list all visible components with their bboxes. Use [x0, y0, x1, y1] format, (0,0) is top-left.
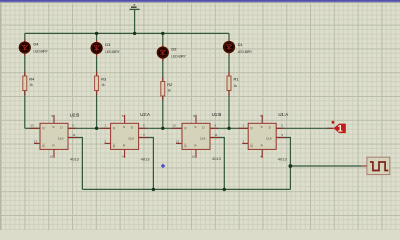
svg-text:S: S: [52, 125, 54, 129]
svg-text:10: 10: [50, 154, 54, 158]
junction clock generator tap: [289, 164, 293, 168]
wire: U1:A clock drop: [276, 138, 290, 190]
wire: Q row R4 to U2:B: [25, 127, 40, 129]
logic state probe "1": [332, 121, 346, 134]
LED D2: [158, 47, 168, 57]
svg-text:10: 10: [192, 154, 196, 158]
power terminal +V: [130, 4, 140, 9]
svg-text:CLK: CLK: [266, 136, 272, 140]
clock generator pin: [362, 165, 367, 167]
pins of resistor R4: [24, 72, 26, 96]
U1:A labels: [243, 112, 289, 162]
U1:B labels: [172, 112, 221, 161]
U2:B pins: [30, 127, 40, 129]
svg-text:12: 12: [176, 140, 180, 144]
pins of LED D1: [228, 39, 230, 56]
resistor R4: [23, 76, 27, 91]
wire: column D3/R3 vertical: [96, 33, 98, 128]
pins of resistor R1: [228, 72, 230, 96]
svg-text:4013: 4013: [212, 156, 222, 161]
svg-text:1k: 1k: [234, 84, 238, 88]
svg-text:U2:A: U2:A: [140, 112, 150, 117]
wire: Q row U2:A D to U1:B Q: [139, 127, 182, 129]
svg-text:D1: D1: [238, 42, 244, 47]
LED D4: [20, 42, 30, 52]
svg-text:S: S: [261, 125, 263, 129]
wire: column D1/R1 vertical: [228, 33, 230, 128]
U1:B pins: [172, 127, 182, 129]
LED D3: [91, 43, 101, 53]
wire: U2:A clock drop: [139, 138, 154, 190]
resistor R2: [161, 82, 165, 97]
window left edge shade: [0, 3, 1, 230]
junction D3 column / supply rail: [95, 32, 98, 35]
svg-text:S: S: [123, 125, 125, 129]
window top edge bar: [0, 0, 400, 3]
svg-text:LED-BIRY: LED-BIRY: [33, 49, 48, 53]
wire: bottom clock rail: [82, 188, 290, 190]
svg-text:S: S: [194, 125, 196, 129]
wire: Q row U1:A D to logic state probe: [276, 127, 333, 129]
pins of resistor R3: [96, 72, 98, 96]
junction D2 column / supply rail: [161, 32, 164, 35]
svg-text:CLK: CLK: [200, 136, 206, 140]
pins of LED D3: [96, 40, 98, 57]
pins of resistor R2: [162, 77, 164, 101]
svg-text:12: 12: [34, 140, 38, 144]
junction U1:B clock drop / clock rail: [223, 188, 226, 191]
resistor R1: [227, 76, 231, 91]
svg-text:4013: 4013: [70, 156, 80, 161]
svg-text:CLK: CLK: [58, 136, 64, 140]
svg-text:1k: 1k: [167, 88, 171, 92]
wire: power terminal drop: [134, 10, 136, 34]
pins of LED D4: [24, 40, 26, 57]
svg-text:4013: 4013: [141, 156, 151, 161]
junction R3 / Q row: [95, 127, 98, 130]
wire: top supply rail: [25, 32, 229, 34]
flip-flop U2:A body: [111, 123, 139, 149]
wire: U2:B clock drop: [68, 138, 82, 190]
wire: column D2/R2 vertical: [162, 33, 164, 128]
origin marker: [161, 164, 166, 169]
wire: column D4/R4 vertical: [24, 33, 26, 128]
flip-flop U1:B body: [182, 123, 210, 149]
U2:A pins: [101, 127, 111, 129]
svg-text:D4: D4: [33, 42, 39, 47]
svg-text:R3: R3: [101, 77, 107, 82]
svg-text:13: 13: [30, 124, 34, 128]
junction U2:A clock drop / clock rail: [152, 188, 155, 191]
svg-text:U1:B: U1:B: [212, 112, 222, 117]
svg-text:U1:A: U1:A: [278, 112, 288, 117]
svg-text:D2: D2: [171, 47, 177, 52]
svg-text:R1: R1: [234, 77, 240, 82]
svg-text:1k: 1k: [29, 83, 33, 87]
wire: Q row U2:B D to U2:A Q: [68, 127, 111, 129]
svg-text:LED-BIRY: LED-BIRY: [238, 50, 253, 54]
junction power terminal / supply rail: [133, 32, 136, 35]
svg-text:13: 13: [172, 124, 176, 128]
LED D1: [224, 42, 234, 52]
svg-text:4013: 4013: [278, 156, 288, 161]
svg-text:R4: R4: [29, 77, 35, 82]
wire: clock generator feed: [290, 165, 361, 167]
svg-text:LED-BIRY: LED-BIRY: [105, 50, 120, 54]
svg-text:11: 11: [72, 133, 75, 137]
U2:A labels: [104, 112, 150, 161]
svg-text:D3: D3: [105, 42, 111, 47]
logic state probe pin: [327, 127, 334, 129]
junction R1 / Q row: [227, 127, 230, 130]
svg-text:CLK: CLK: [128, 136, 134, 140]
svg-text:R2: R2: [167, 82, 173, 87]
svg-text:U2:B: U2:B: [70, 113, 80, 118]
svg-text:11: 11: [214, 133, 217, 137]
svg-text:1: 1: [337, 123, 342, 133]
flip-flop U1:A body: [248, 123, 276, 149]
resistor R3: [95, 76, 99, 91]
flip-flop U2:B body: [40, 123, 68, 149]
svg-text:LED-BIRY: LED-BIRY: [171, 54, 186, 58]
pins of LED D2: [162, 45, 164, 62]
junction R2 / Q row: [161, 127, 164, 130]
wire: Q row U1:B D to U1:A Q: [210, 127, 248, 129]
clock generator DCLOCK: [367, 157, 390, 174]
svg-text:1k: 1k: [101, 83, 105, 87]
U1:A pins: [238, 127, 248, 129]
U2:B labels: [30, 113, 79, 162]
wire: U1:B clock drop: [210, 138, 224, 190]
